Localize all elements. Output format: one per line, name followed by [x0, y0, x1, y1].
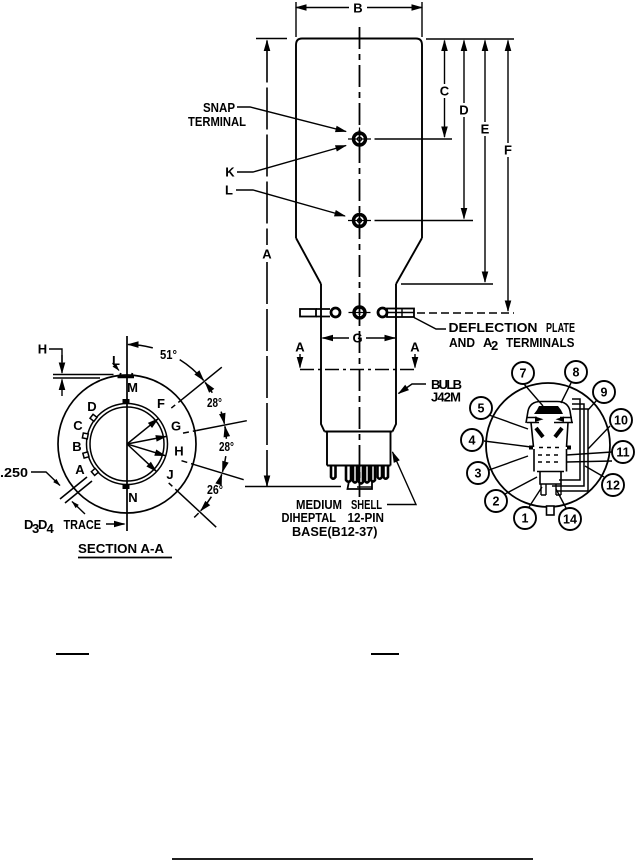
gun cap black [534, 406, 563, 414]
vertical center line (dashed) of tube [359, 27, 361, 497]
bulb neck left wall [321, 284, 325, 432]
bottom rule line [172, 858, 533, 860]
svg-text:A: A [295, 340, 305, 355]
leader K to terminal 1 [237, 146, 346, 173]
svg-text:1: 1 [522, 512, 529, 526]
svg-text:3: 3 [475, 467, 482, 481]
leader .250 [31, 472, 60, 486]
lower pins rects [541, 484, 561, 495]
svg-text:10: 10 [614, 414, 628, 428]
svg-text:F: F [157, 396, 165, 411]
svg-text:C: C [73, 418, 83, 433]
section outer circle [58, 375, 196, 513]
pin stub M (top, filled) [123, 399, 130, 404]
svg-text:12-PIN: 12-PIN [348, 510, 385, 525]
gun grid line [527, 417, 572, 419]
base shell sides and bottom [327, 432, 391, 466]
svg-text:A: A [410, 340, 420, 355]
svg-text:14: 14 [563, 513, 577, 527]
snap terminal mark on circle top [118, 376, 135, 378]
section inner ring [87, 404, 168, 485]
svg-text:B: B [353, 1, 362, 16]
svg-text:28°: 28° [207, 395, 222, 410]
svg-text:12: 12 [606, 479, 620, 493]
angle arc 28 deg (G-H) [220, 426, 227, 480]
dimension A line (dashed vertical) [266, 41, 268, 487]
top extension line right for C D E F [426, 38, 514, 40]
snap terminal 1 (upper) [348, 128, 371, 151]
base circle [486, 383, 610, 507]
svg-text:2: 2 [493, 495, 500, 509]
gun internal structure [526, 399, 588, 495]
dash row 1 with end squares [529, 446, 571, 450]
gun side walls [531, 423, 568, 448]
deflection plates hatched [536, 428, 543, 437]
misc short line bottom-left [56, 653, 89, 655]
svg-text:B: B [72, 439, 81, 454]
svg-text:2: 2 [491, 338, 498, 353]
svg-text:C: C [440, 84, 450, 99]
leader SNAP TERMINAL to terminal 1 [237, 107, 346, 132]
svg-text:A: A [75, 462, 85, 477]
dimension E line [484, 41, 486, 283]
grid arrows [535, 417, 544, 423]
svg-text:DEFLECTION: DEFLECTION [449, 320, 538, 335]
chamfer flat lines [60, 477, 92, 503]
lower box [537, 472, 564, 485]
svg-text:9: 9 [601, 386, 608, 400]
angle arc 28 deg (F-G) [205, 383, 226, 433]
F bottom extension line (dashed, deflection level) [417, 312, 514, 314]
C bottom extension line (terminal 1 level) [375, 138, 453, 140]
lead lines to pins [484, 383, 612, 508]
svg-text:K: K [225, 165, 235, 180]
pin stub N (bottom, filled) [123, 484, 130, 489]
radial line H [127, 444, 244, 480]
side rails [534, 449, 567, 472]
right nested leads [552, 399, 588, 491]
base pins [331, 466, 388, 484]
svg-text:.250: .250 [0, 465, 28, 480]
leader L to terminal 2 [236, 190, 345, 216]
underline [78, 557, 172, 559]
svg-text:SECTION A-A: SECTION A-A [78, 541, 165, 556]
bulb neck right wall [393, 284, 397, 432]
svg-text:M: M [127, 380, 138, 395]
base key notch [547, 506, 555, 515]
left pin stubs D C B A (open squares) [82, 414, 98, 475]
bulb cone right [396, 238, 422, 284]
radial line F [127, 367, 222, 444]
svg-text:TERMINALS: TERMINALS [506, 335, 575, 350]
svg-text:L: L [225, 183, 233, 198]
svg-text:A: A [262, 247, 272, 262]
misc short line bottom-center [371, 653, 399, 655]
svg-text:H: H [174, 444, 183, 459]
snap flat tangent lines [53, 375, 114, 379]
svg-text:J: J [166, 467, 173, 482]
svg-text:51°: 51° [160, 347, 177, 362]
deflection plate terminal left bolt [300, 308, 340, 317]
dimension F line [507, 41, 509, 312]
gun bell outline [526, 402, 572, 424]
svg-text:D: D [459, 103, 468, 118]
svg-text:28°: 28° [219, 439, 234, 454]
pin numbers [469, 366, 630, 527]
dash rows [538, 454, 562, 456]
top extension line left [256, 38, 287, 40]
dimension G line [323, 337, 396, 339]
deflection terminal center target [349, 302, 371, 324]
svg-text:PLATE: PLATE [546, 320, 575, 335]
dimension D line [463, 41, 465, 219]
svg-text:8: 8 [573, 366, 580, 380]
svg-text:E: E [481, 122, 490, 137]
dimension B line [296, 2, 422, 37]
svg-text:7: 7 [520, 367, 527, 381]
section cut line A-A [300, 369, 415, 371]
svg-text:TERMINAL: TERMINAL [188, 114, 246, 129]
svg-text:G: G [171, 419, 181, 434]
pin circles 1-14 [461, 361, 634, 530]
svg-text:5: 5 [478, 402, 485, 416]
angle arc 26 deg (H-J) [194, 474, 222, 517]
section vertical center line [126, 336, 128, 531]
svg-text:G: G [352, 331, 362, 346]
svg-text:BASE(B12-37): BASE(B12-37) [292, 524, 378, 539]
bulb body outline [296, 39, 422, 239]
svg-text:L: L [112, 353, 120, 368]
bulb cone left [296, 238, 321, 284]
svg-text:11: 11 [616, 446, 629, 460]
svg-text:SNAP: SNAP [203, 100, 235, 115]
leader base [387, 452, 416, 505]
base shell top [325, 431, 393, 433]
svg-text:F: F [504, 143, 512, 158]
svg-text:26°: 26° [207, 482, 223, 497]
chamfer lower arrow [72, 502, 85, 515]
E bottom extension line [401, 283, 493, 285]
svg-text:N: N [128, 490, 137, 505]
svg-text:DIHEPTAL: DIHEPTAL [282, 510, 337, 525]
arrow D3D4 trace to center line [106, 523, 125, 525]
radial line J [127, 444, 216, 527]
leader deflection plate terminals [414, 318, 446, 330]
svg-text:D: D [87, 399, 96, 414]
svg-text:TRACE: TRACE [64, 517, 102, 532]
svg-text:H: H [38, 342, 47, 357]
snap terminal 2 (lower) [348, 209, 371, 232]
leader bulb [399, 384, 427, 394]
dimension C line [444, 41, 446, 138]
svg-text:4: 4 [469, 434, 476, 448]
base key collar [348, 481, 373, 489]
A bottom extension line [245, 486, 341, 488]
svg-text:J42M: J42M [431, 390, 461, 405]
deflection plate terminal right bolt [378, 308, 414, 317]
D bottom extension line (terminal 2 level) [375, 220, 474, 222]
radial line G [127, 421, 247, 444]
angle arc 51 deg [128, 345, 209, 388]
svg-text:AND: AND [449, 335, 475, 350]
svg-text:4: 4 [47, 521, 55, 536]
